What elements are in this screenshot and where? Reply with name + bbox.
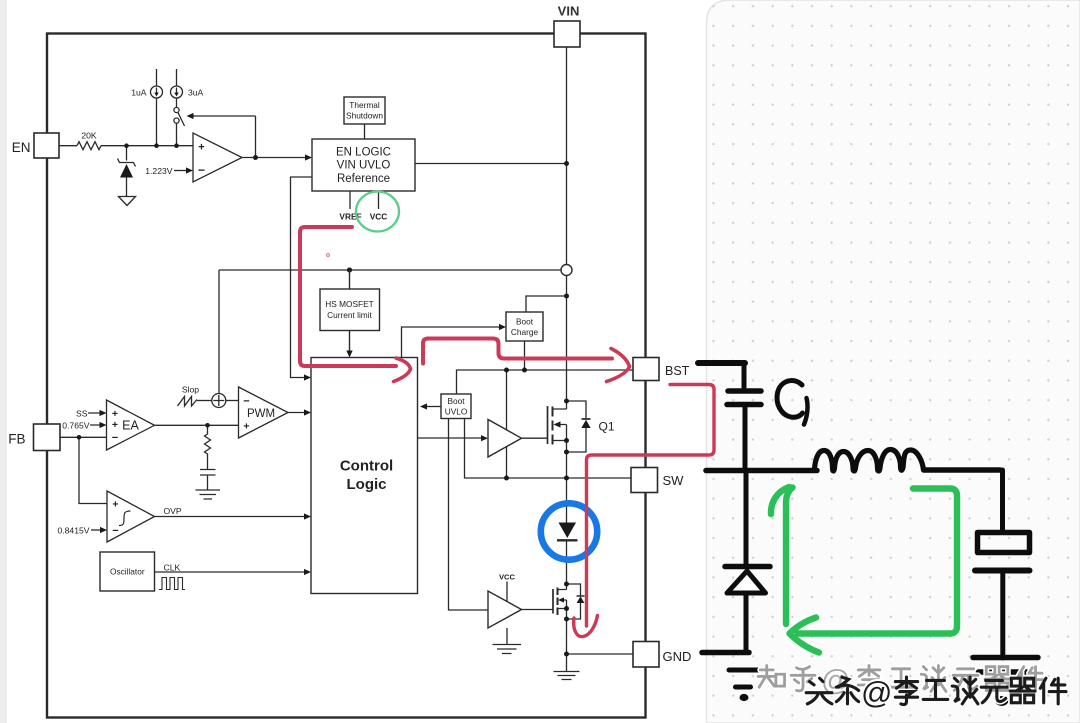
svg-text:VIN: VIN bbox=[558, 4, 580, 19]
svg-text:UVLO: UVLO bbox=[445, 407, 468, 417]
svg-text:VCC: VCC bbox=[499, 573, 516, 582]
svg-text:EN LOGIC: EN LOGIC bbox=[336, 147, 391, 159]
svg-text:Logic: Logic bbox=[347, 476, 387, 493]
svg-text:3uA: 3uA bbox=[188, 88, 204, 98]
svg-text:EA: EA bbox=[122, 419, 139, 433]
svg-text:PWM: PWM bbox=[247, 408, 275, 420]
svg-text:20K: 20K bbox=[81, 131, 97, 141]
svg-text:VCC: VCC bbox=[370, 212, 388, 222]
svg-text:VIN UVLO: VIN UVLO bbox=[337, 160, 391, 172]
svg-text:+: + bbox=[243, 421, 249, 433]
svg-text:@: @ bbox=[861, 675, 892, 710]
svg-text:+: + bbox=[198, 142, 204, 154]
svg-text:1.223V: 1.223V bbox=[145, 166, 173, 176]
svg-text:−: − bbox=[243, 396, 249, 408]
svg-text:Thermal: Thermal bbox=[349, 100, 380, 110]
svg-text:FB: FB bbox=[8, 432, 25, 447]
svg-text:1uA: 1uA bbox=[131, 88, 147, 98]
svg-text:GND: GND bbox=[663, 649, 692, 664]
svg-text:Slop: Slop bbox=[182, 385, 199, 395]
svg-text:Oscillator: Oscillator bbox=[110, 567, 145, 577]
svg-text:SW: SW bbox=[663, 473, 685, 488]
svg-text:CLK: CLK bbox=[164, 563, 181, 573]
svg-text:−: − bbox=[112, 525, 118, 537]
svg-text:Control: Control bbox=[340, 458, 393, 475]
svg-text:0.765V: 0.765V bbox=[62, 421, 90, 431]
svg-text:Boot: Boot bbox=[516, 317, 534, 327]
svg-text:SS: SS bbox=[76, 409, 88, 419]
svg-text:+: + bbox=[112, 419, 118, 431]
svg-text:Reference: Reference bbox=[337, 173, 390, 185]
svg-text:Current limit: Current limit bbox=[327, 310, 372, 320]
svg-text:−: − bbox=[198, 163, 205, 177]
svg-text:BST: BST bbox=[665, 364, 690, 378]
svg-text:+: + bbox=[112, 499, 118, 511]
svg-text:OVP: OVP bbox=[164, 506, 182, 516]
svg-text:Boot: Boot bbox=[447, 396, 465, 406]
svg-text:Charge: Charge bbox=[511, 327, 539, 337]
svg-text:Shutdown: Shutdown bbox=[346, 111, 383, 121]
svg-text:−: − bbox=[112, 432, 118, 444]
svg-text:EN: EN bbox=[12, 140, 31, 155]
svg-text:HS MOSFET: HS MOSFET bbox=[325, 299, 373, 309]
svg-text:Q1: Q1 bbox=[599, 420, 615, 434]
svg-text:0.8415V: 0.8415V bbox=[57, 526, 89, 536]
